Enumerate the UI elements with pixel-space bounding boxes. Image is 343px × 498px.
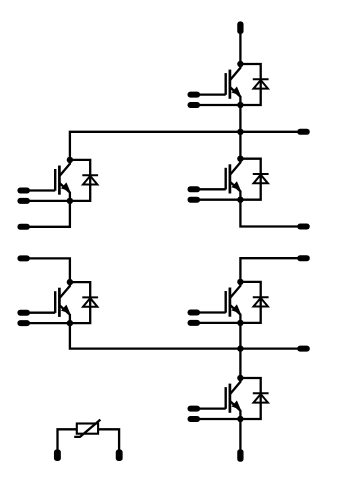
- gate terminal pill of Q4: [188, 406, 201, 412]
- node: junction of upper bus on main branch: [237, 129, 243, 135]
- gate terminal pill of Q1: [188, 92, 201, 98]
- wire: thermistor left lead: [58, 429, 77, 450]
- auxiliary emitter terminal pill of Q2: [188, 197, 201, 203]
- wire: Q5 emitter to its power terminal: [29, 201, 70, 227]
- Q3 collector power terminal pill: [297, 255, 310, 261]
- transistor Q1: [199, 61, 243, 108]
- thermistor R1 diagonal stroke: [74, 420, 100, 437]
- wire: thermistor right lead: [98, 429, 119, 450]
- wire: upper bus (Q5 collector across to right terminal): [70, 132, 298, 160]
- transistor Q5: [29, 157, 73, 204]
- wire: Q2 emitter to its power terminal: [240, 200, 298, 227]
- wire: lower bus (Q6 emitter across to right terminal): [70, 323, 298, 349]
- wire: Q3 emitter to Q4 collector: [239, 323, 241, 378]
- auxiliary emitter terminal pill of Q4: [188, 416, 201, 422]
- transistor Q4: [199, 375, 243, 422]
- DC- terminal pill (bottom): [237, 449, 243, 462]
- gate terminal pill of Q2: [188, 186, 201, 192]
- diode D3 (anti-parallel with Q3): [240, 282, 268, 323]
- Q2 emitter power terminal pill: [297, 224, 310, 230]
- thermistor left terminal pill: [54, 449, 61, 461]
- diode D4 (anti-parallel with Q4): [240, 378, 268, 419]
- upper bus right terminal pill: [297, 129, 310, 135]
- wire: Q1 emitter to Q2 collector: [239, 105, 241, 159]
- auxiliary emitter terminal pill of Q6: [17, 320, 30, 326]
- transistor Q2: [199, 156, 243, 203]
- diode D1 (anti-parallel with Q1): [240, 64, 268, 105]
- diode D6 (anti-parallel with Q6): [70, 282, 98, 323]
- diode D2 (anti-parallel with Q2): [240, 159, 268, 200]
- gate terminal pill of Q6: [17, 310, 30, 316]
- transistor Q3: [199, 279, 243, 326]
- wire: Q4 emitter to bottom terminal: [239, 419, 241, 450]
- auxiliary emitter terminal pill of Q3: [188, 320, 201, 326]
- diode D5 (anti-parallel with Q5): [70, 160, 98, 201]
- gate terminal pill of Q3: [188, 310, 201, 316]
- transistor Q6: [29, 279, 73, 326]
- auxiliary emitter terminal pill of Q5: [17, 198, 30, 204]
- wire: Q3 power terminal to Q3 collector: [240, 258, 298, 282]
- node: junction of lower bus on main branch: [237, 345, 243, 351]
- Q6 collector power terminal pill: [17, 255, 30, 261]
- auxiliary emitter terminal pill of Q1: [188, 102, 201, 108]
- thermistor right terminal pill: [116, 449, 123, 461]
- wire: top terminal to Q1 collector: [239, 33, 241, 64]
- gate terminal pill of Q5: [17, 188, 30, 194]
- wire: Q6 power terminal to Q6 collector: [29, 258, 70, 282]
- thermistor R1 (NTC) body: [77, 424, 98, 434]
- lower bus right terminal pill: [297, 346, 310, 352]
- DC+ terminal pill (top): [237, 21, 243, 34]
- Q5 emitter power terminal pill: [17, 224, 30, 230]
